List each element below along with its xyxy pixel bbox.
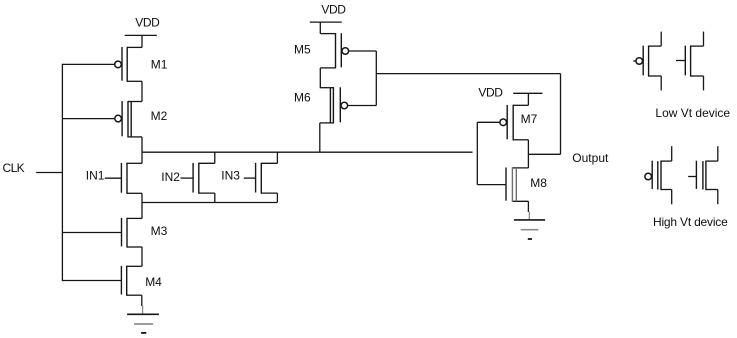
- wire IN2 source to node B: [214, 193, 216, 202]
- VDD rail M7: [513, 92, 542, 94]
- label High Vt device: [653, 215, 728, 229]
- transistor M7: [500, 105, 529, 141]
- wire CLK input: [36, 172, 62, 174]
- wire M7/M8 gate bus: [476, 122, 478, 184]
- wire node B to M3 drain: [141, 203, 143, 219]
- svg-text:M2: M2: [151, 109, 168, 123]
- wire node A to IN1 drain: [141, 152, 143, 163]
- wire M2 source to node A: [141, 137, 143, 152]
- transistor M5: [320, 33, 348, 69]
- transistor M3: [122, 218, 143, 248]
- wire M3 source to M4 drain: [141, 247, 143, 266]
- svg-text:M4: M4: [145, 275, 162, 289]
- wire M5 gate: [349, 50, 377, 52]
- wire M6 drain to node A: [319, 123, 321, 152]
- legend low-Vt NMOS: [676, 32, 704, 91]
- svg-text:M5: M5: [294, 42, 311, 56]
- svg-text:IN3: IN3: [221, 169, 240, 183]
- transistor M8 (high Vt): [506, 167, 528, 202]
- transistor M6 (high Vt): [320, 87, 348, 123]
- wire IN3 source to node B: [276, 193, 278, 202]
- wire feedback horizontal: [376, 73, 560, 75]
- wire IN1 gate: [105, 177, 122, 179]
- wire M1 gate: [62, 63, 114, 65]
- svg-text:VDD: VDD: [478, 85, 503, 99]
- wire M6 gate: [348, 105, 377, 107]
- ground (below M4): [127, 314, 159, 333]
- wire output to M8 drain: [527, 154, 529, 168]
- label M4: [145, 275, 162, 289]
- wire M7 drain to output: [527, 140, 529, 155]
- VDD label (M5 rail): [321, 2, 346, 16]
- svg-text:Low Vt device: Low Vt device: [655, 106, 730, 120]
- legend high-Vt PMOS: [645, 146, 672, 204]
- wire IN3 gate: [244, 177, 256, 179]
- label Output: [572, 151, 609, 165]
- svg-text:IN2: IN2: [161, 170, 180, 184]
- wire VDD to M5 source: [319, 22, 321, 33]
- svg-text:M7: M7: [521, 112, 538, 126]
- label M5: [294, 42, 311, 56]
- transistor IN2: [193, 163, 215, 194]
- label IN3: [221, 169, 240, 183]
- wire M2 gate: [62, 118, 115, 120]
- label M1: [151, 57, 168, 71]
- label IN1: [86, 168, 105, 182]
- CLK label: [3, 161, 25, 175]
- wire node A to IN3 drain: [276, 152, 278, 163]
- wire IN1 source to node B: [141, 193, 143, 202]
- VDD rail M5: [310, 21, 342, 23]
- legend high-Vt NMOS: [688, 146, 718, 204]
- wire M8 gate: [477, 184, 506, 186]
- label M3: [151, 224, 168, 238]
- label M7: [521, 112, 538, 126]
- wire VDD to M1 drain: [141, 35, 143, 47]
- wire keeper gate bus: [375, 51, 377, 106]
- wire IN2 gate: [181, 177, 194, 179]
- wire node B horizontal: [142, 202, 277, 204]
- wire VDD to M7 source: [527, 93, 529, 105]
- label M2: [151, 109, 168, 123]
- wire M5 drain to M6 source: [319, 68, 321, 88]
- svg-text:M8: M8: [530, 176, 547, 190]
- svg-text:Output: Output: [572, 151, 609, 165]
- svg-text:High Vt device: High Vt device: [653, 215, 728, 229]
- label IN2: [161, 170, 180, 184]
- svg-text:VDD: VDD: [321, 2, 346, 16]
- svg-text:M3: M3: [151, 224, 168, 238]
- wire M4 source to ground: [141, 295, 144, 314]
- transistor IN1: [121, 163, 142, 194]
- svg-text:M1: M1: [151, 57, 168, 71]
- transistor M2 (high Vt): [115, 101, 142, 138]
- label M6: [294, 90, 311, 104]
- ground (below M8): [514, 220, 545, 239]
- wire M1 source to M2 drain: [141, 81, 143, 101]
- wire feedback vertical: [560, 74, 562, 155]
- VDD label (M7 rail): [478, 85, 503, 99]
- transistor M1: [115, 47, 142, 82]
- wire M7 gate: [477, 121, 499, 123]
- svg-text:CLK: CLK: [3, 161, 25, 175]
- svg-text:IN1: IN1: [86, 168, 105, 182]
- label M8: [530, 176, 547, 190]
- transistor IN3: [256, 163, 278, 194]
- wire M8 source to ground: [527, 201, 530, 219]
- svg-text:VDD: VDD: [135, 15, 160, 29]
- wire output: [528, 153, 560, 155]
- VDD label (M1 rail): [135, 15, 160, 29]
- wire CLK vertical bus: [61, 64, 63, 281]
- wire M4 gate: [62, 280, 121, 282]
- VDD rail M1: [125, 34, 157, 36]
- wire node A to IN2 drain: [214, 152, 216, 163]
- wire M3 gate: [62, 232, 121, 234]
- wire node A horizontal: [142, 151, 473, 153]
- legend low-Vt PMOS: [633, 32, 661, 91]
- transistor M4: [121, 266, 141, 296]
- label Low Vt device: [655, 106, 730, 120]
- svg-text:M6: M6: [294, 90, 311, 104]
